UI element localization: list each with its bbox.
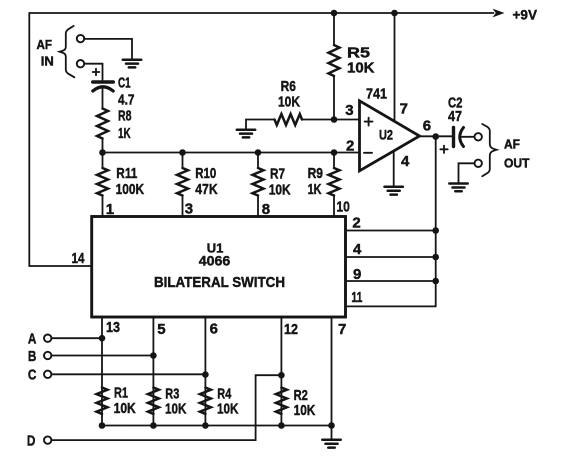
ground xyxy=(322,440,340,448)
svg-text:741: 741 xyxy=(366,86,387,103)
svg-text:12: 12 xyxy=(284,321,298,338)
junction node xyxy=(331,149,338,156)
wire U1 pin 13 xyxy=(101,317,103,426)
ground xyxy=(385,187,403,195)
resistor R9 1K xyxy=(308,153,340,217)
wire R6 to ground xyxy=(245,120,247,129)
junction node xyxy=(331,116,338,123)
wire C to U1 pin 6 xyxy=(52,373,206,375)
wire U1 pin 5 xyxy=(152,317,154,426)
junction node xyxy=(432,133,439,140)
junction node xyxy=(150,422,157,429)
junction node xyxy=(150,352,157,359)
node A xyxy=(28,331,52,348)
svg-text:2: 2 xyxy=(346,138,354,155)
svg-text:3: 3 xyxy=(345,102,353,119)
svg-text:10K: 10K xyxy=(294,402,316,419)
resistor R2 10K xyxy=(276,387,316,419)
junction node xyxy=(328,422,335,429)
svg-text:R8: R8 xyxy=(118,108,132,125)
node C xyxy=(28,367,52,384)
junction node xyxy=(99,149,106,156)
junction node xyxy=(255,149,262,156)
svg-text:47K: 47K xyxy=(195,181,218,198)
junction node xyxy=(179,149,186,156)
wire AF OUT bottom terminal to ground xyxy=(459,163,475,182)
svg-text:10K: 10K xyxy=(165,401,187,418)
wire B to U1 pin 5 xyxy=(52,355,154,357)
svg-text:OUT: OUT xyxy=(504,157,530,171)
wire output to U1 pins 2,4,9,11 xyxy=(435,137,437,307)
node +9V xyxy=(493,7,538,23)
junction node xyxy=(432,227,439,234)
svg-text:+9V: +9V xyxy=(513,7,538,23)
svg-text:D: D xyxy=(27,433,36,450)
svg-text:14: 14 xyxy=(72,250,86,267)
svg-text:7: 7 xyxy=(338,321,346,338)
wire AF IN top terminal to ground xyxy=(84,39,132,59)
svg-text:100K: 100K xyxy=(116,181,145,198)
svg-text:5: 5 xyxy=(157,321,165,338)
wire R8 to inverting bus xyxy=(102,139,104,153)
junction node xyxy=(278,372,285,379)
IC U1 4066 bilateral switch xyxy=(92,217,346,318)
svg-text:10K: 10K xyxy=(114,400,136,417)
svg-text:10: 10 xyxy=(336,199,350,216)
wire op-amp output xyxy=(420,135,453,137)
junction node xyxy=(391,10,398,17)
wire pin 7 to +9V xyxy=(394,13,396,120)
junction node xyxy=(432,254,439,261)
svg-text:R6: R6 xyxy=(281,78,296,95)
junction node xyxy=(278,422,285,429)
ground xyxy=(237,130,255,138)
svg-text:9: 9 xyxy=(353,266,361,283)
svg-text:4.7: 4.7 xyxy=(118,91,135,108)
wire +9V top rail xyxy=(29,13,493,266)
resistor R3 10K xyxy=(148,386,187,418)
jack J1 AF IN xyxy=(37,26,85,77)
svg-text:R7: R7 xyxy=(270,166,285,183)
svg-text:1K: 1K xyxy=(308,181,322,198)
wire C1 to R8 xyxy=(102,88,104,109)
svg-text:11: 11 xyxy=(351,289,362,306)
wire AF IN bottom terminal to C1 xyxy=(84,64,102,80)
resistor R10 47K xyxy=(177,153,218,217)
junction node xyxy=(99,422,106,429)
ground xyxy=(123,60,141,68)
svg-text:AF: AF xyxy=(504,138,520,152)
svg-text:1K: 1K xyxy=(118,125,131,142)
svg-text:13: 13 xyxy=(106,319,120,336)
wire U1 pin 9 xyxy=(346,280,436,282)
wire U1 pin 11 xyxy=(346,305,436,307)
resistor R6 10K xyxy=(246,78,360,125)
svg-text:7: 7 xyxy=(400,101,408,118)
junction node xyxy=(202,422,209,429)
resistor R5 10K xyxy=(329,13,375,120)
resistor R1 10K xyxy=(97,385,136,418)
svg-text:B: B xyxy=(28,348,37,365)
svg-text:6: 6 xyxy=(423,118,431,135)
svg-text:R11: R11 xyxy=(116,165,137,182)
svg-text:6: 6 xyxy=(210,321,218,338)
svg-text:10K: 10K xyxy=(278,94,300,111)
svg-text:2: 2 xyxy=(352,215,360,232)
svg-text:4: 4 xyxy=(353,241,362,258)
wire U1 pin 6 xyxy=(204,317,206,426)
ground xyxy=(449,184,467,192)
svg-text:IN: IN xyxy=(41,54,54,68)
svg-text:A: A xyxy=(28,331,37,348)
svg-text:4: 4 xyxy=(401,153,410,170)
resistor R7 10K xyxy=(253,153,291,217)
svg-text:R10: R10 xyxy=(195,165,216,182)
node B xyxy=(28,348,52,365)
svg-text:R1: R1 xyxy=(114,385,128,402)
node D xyxy=(27,433,52,450)
wire U1 pin 2 xyxy=(346,230,436,232)
svg-text:4066: 4066 xyxy=(199,253,231,269)
svg-text:10K: 10K xyxy=(217,401,239,418)
svg-text:R9: R9 xyxy=(308,165,323,182)
junction node xyxy=(202,371,209,378)
svg-text:C: C xyxy=(28,367,37,384)
svg-text:3: 3 xyxy=(185,201,193,218)
svg-text:BILATERAL SWITCH: BILATERAL SWITCH xyxy=(154,274,285,291)
wire C2 to jack xyxy=(460,136,475,138)
svg-text:10K: 10K xyxy=(269,182,291,199)
wire A to U1 pin 13 xyxy=(52,337,102,339)
svg-text:AF: AF xyxy=(37,38,53,52)
junction node xyxy=(99,335,106,342)
resistor R4 10K xyxy=(200,386,239,418)
capacitor C1 4.7 xyxy=(93,69,135,109)
svg-text:47: 47 xyxy=(448,108,462,125)
wire pin 4 to ground xyxy=(393,151,395,186)
svg-text:U2: U2 xyxy=(379,128,393,143)
svg-text:10K: 10K xyxy=(347,60,375,77)
wire bottom ground bus xyxy=(102,425,332,427)
junction node xyxy=(432,278,439,285)
wire U1 pin 7 xyxy=(331,317,333,426)
op-amp U2 741 xyxy=(360,86,420,171)
wire inverting input bus xyxy=(103,152,360,154)
svg-text:C1: C1 xyxy=(118,75,131,92)
capacitor C2 47 xyxy=(440,95,463,154)
resistor R8 1K xyxy=(97,108,132,143)
resistor R11 100K xyxy=(97,153,144,217)
jack J2 AF OUT xyxy=(475,124,530,176)
wire U1 pin 12 xyxy=(280,317,282,426)
wire bus to ground xyxy=(331,426,333,439)
wire U1 pin 4 xyxy=(346,256,436,258)
wire D to U1 pin 12 xyxy=(52,375,282,440)
junction node xyxy=(331,10,338,17)
